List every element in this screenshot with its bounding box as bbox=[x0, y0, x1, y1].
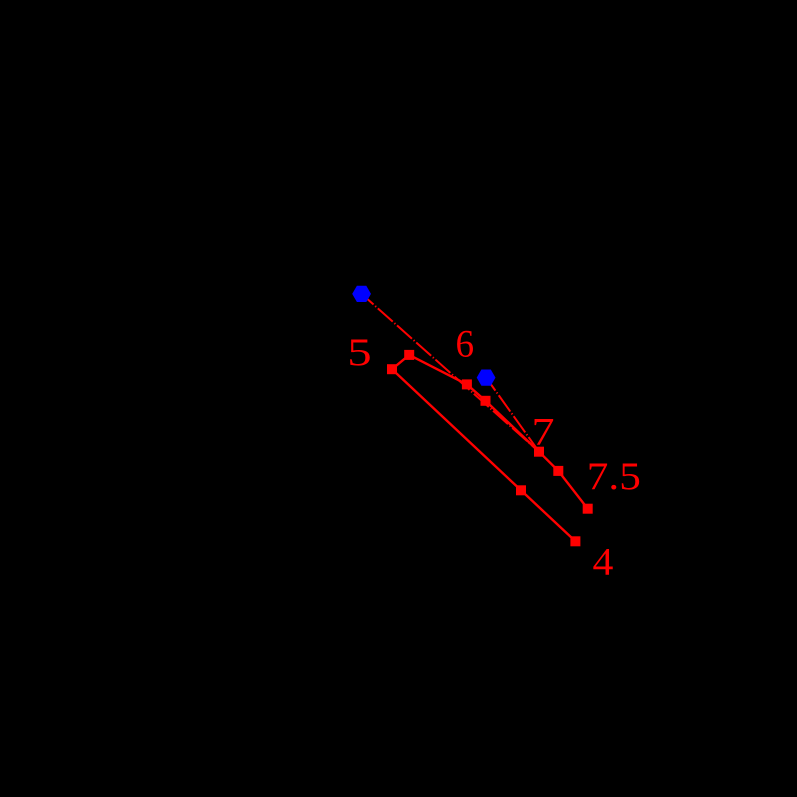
node marker square F bbox=[553, 466, 563, 476]
wire dashed line from blue node P2 to point 7 bbox=[486, 378, 539, 452]
svg-text:7.5: 7.5 bbox=[587, 455, 641, 498]
svg-text:6: 6 bbox=[456, 322, 475, 365]
wire upper red polyline 5-6-7-7.5 bbox=[392, 355, 588, 509]
svg-text:4: 4 bbox=[593, 541, 614, 584]
wire dashed line from blue node P1 to point 7 bbox=[362, 294, 539, 452]
node marker square 7.5 bbox=[583, 504, 593, 514]
node marker square 5 bbox=[387, 364, 397, 374]
node marker square 4 bbox=[570, 536, 580, 546]
node blue hexagon P2 bbox=[477, 370, 496, 386]
svg-text:5: 5 bbox=[347, 331, 371, 374]
node blue hexagon P1 bbox=[352, 286, 371, 302]
svg-text:7: 7 bbox=[532, 410, 555, 453]
node marker square 6 bbox=[462, 379, 472, 389]
node marker square 7 bbox=[534, 447, 544, 457]
node marker square H bbox=[516, 485, 526, 495]
node marker square D bbox=[481, 396, 491, 406]
node marker square A bbox=[404, 350, 414, 360]
wire lower red polyline 5-4 bbox=[392, 369, 575, 541]
